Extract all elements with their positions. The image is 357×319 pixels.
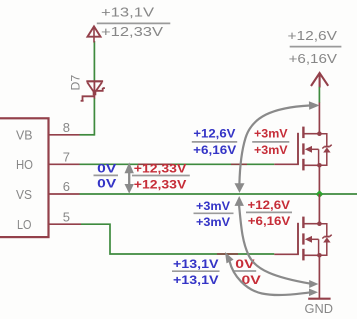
zener diode D7 <box>81 81 105 101</box>
svg-text:+3mV: +3mV <box>254 127 288 141</box>
wire VS <box>80 193 357 195</box>
IC U1 body <box>0 118 49 237</box>
wire VS junction to Q2 drain <box>318 194 320 224</box>
wire VB vertical up to D7 <box>93 98 95 136</box>
svg-text:0V: 0V <box>97 177 117 191</box>
measure arrow VS to +12,6V rail (curved) <box>235 101 320 193</box>
svg-text:5: 5 <box>63 209 70 224</box>
pin 6 stub <box>48 193 80 195</box>
svg-text:+12,33V: +12,33V <box>101 24 163 39</box>
svg-text:+6,16V: +6,16V <box>289 51 338 66</box>
pin 8 stub <box>48 134 80 136</box>
svg-text:VS: VS <box>16 187 32 202</box>
svg-text:+13,1V: +13,1V <box>101 4 154 19</box>
svg-text:LO: LO <box>17 217 32 232</box>
transistor Q1 (high side NMOS) <box>274 127 331 171</box>
svg-text:+3mV: +3mV <box>196 199 231 213</box>
measure arrow VS to GND (curved) <box>235 196 319 288</box>
measure arrow LO to GND (curved) <box>225 252 318 296</box>
measure arrow HO-VS (double vertical) <box>125 162 134 193</box>
svg-text:8: 8 <box>63 120 70 135</box>
wire tint artifacts <box>138 163 172 165</box>
svg-text:+12,6V: +12,6V <box>193 127 236 141</box>
svg-text:HO: HO <box>16 157 33 172</box>
svg-text:D7: D7 <box>69 75 83 91</box>
transistor Q2 (low side NMOS) <box>274 217 331 261</box>
power symbol +13,1V (filled arrow) <box>88 26 101 42</box>
separator line <box>290 46 342 48</box>
wire VB horizontal <box>80 134 95 136</box>
wire Q1 source to VS junction <box>318 165 320 194</box>
svg-text:+12,33V: +12,33V <box>134 177 187 191</box>
pin 5 stub <box>48 223 81 225</box>
node VS junction <box>316 190 324 198</box>
svg-text:GND: GND <box>305 301 334 316</box>
svg-text:+6,16V: +6,16V <box>193 143 237 157</box>
svg-text:+12,6V: +12,6V <box>248 198 291 212</box>
ground symbol <box>308 298 330 300</box>
svg-text:+12,33V: +12,33V <box>134 161 187 175</box>
svg-text:+6,16V: +6,16V <box>248 214 291 228</box>
pin 7 stub <box>48 163 80 165</box>
power symbol +12,6V (chevron) <box>311 73 328 88</box>
svg-text:+3mV: +3mV <box>196 215 231 229</box>
separator line <box>97 22 171 24</box>
svg-text:+12,6V: +12,6V <box>288 28 338 43</box>
svg-text:+13,1V: +13,1V <box>173 273 219 287</box>
svg-text:0V: 0V <box>97 161 117 175</box>
svg-text:+13,1V: +13,1V <box>173 257 219 271</box>
wire Q2 source to GND <box>318 255 320 298</box>
svg-text:VB: VB <box>16 128 33 143</box>
svg-text:7: 7 <box>63 149 70 164</box>
wire LO <box>81 224 274 254</box>
svg-text:+3mV: +3mV <box>254 143 288 157</box>
wire HO <box>80 163 275 165</box>
wire top rail green segment <box>318 87 320 103</box>
drain stub Q1 <box>318 103 320 134</box>
wire D7 top to power arrow <box>93 41 95 81</box>
svg-text:6: 6 <box>63 179 70 194</box>
svg-text:0V: 0V <box>235 257 255 271</box>
